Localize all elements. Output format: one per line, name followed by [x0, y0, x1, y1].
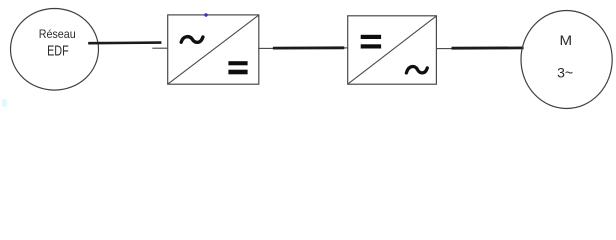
svg-text:Réseau: Réseau [39, 27, 76, 41]
motor M1 circle [521, 11, 612, 109]
wire stub: inverter input [344, 47, 349, 49]
svg-text:EDF: EDF [47, 43, 69, 59]
wire stub: rectifier output [258, 47, 273, 49]
artifact cyan mark bottom-left [2, 99, 7, 107]
inverter DC symbol = [361, 35, 381, 49]
rectifier U1 box [168, 15, 259, 84]
rectifier AC symbol ~ [181, 37, 203, 43]
source ellipse: Réseau EDF [11, 9, 99, 91]
inverter AC symbol ~ [406, 66, 427, 72]
rectifier U1 diagonal [168, 15, 258, 83]
wire: rectifier to inverter [273, 46, 344, 49]
wire: inverter to motor [452, 47, 524, 50]
selection handle dot on rectifier top edge [204, 13, 207, 16]
inverter U2 box [348, 16, 437, 84]
svg-text:M: M [560, 32, 573, 48]
svg-text:3~: 3~ [557, 66, 573, 81]
rectifier DC symbol = [228, 61, 247, 74]
wire stub: inverter output [436, 48, 452, 50]
wire: EDF to rectifier [88, 41, 161, 44]
wire stub: rectifier input [152, 47, 167, 49]
inverter U2 diagonal [348, 16, 435, 83]
